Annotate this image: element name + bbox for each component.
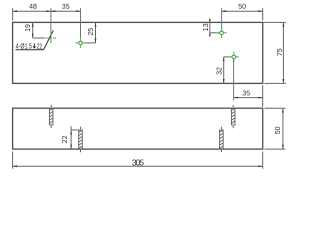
slot C (hole H4 drilled from top) [231, 105, 235, 128]
dimension 25 vertical [95, 22, 97, 43]
hole H2 center cross [75, 38, 85, 48]
hole note underline [16, 49, 44, 51]
pointer line from 19 to hole H1 [33, 37, 46, 39]
dimension line 75 [282, 22, 284, 83]
extension line at hole H3 (dim 50) [221, 8, 223, 30]
svg-text:35: 35 [62, 4, 70, 11]
extension line right (dim 50) [262, 8, 264, 20]
extension lines for dim 305 [12, 152, 14, 169]
extension line at hole H2 (dim 35) [80, 8, 82, 41]
dimension line 48 [13, 10, 51, 12]
svg-text:35: 35 [242, 90, 250, 97]
svg-text:50: 50 [275, 126, 282, 134]
dimension 19 vertical [32, 22, 34, 38]
svg-text:19: 19 [25, 24, 32, 32]
extension line at hole H1 (dims 48/35) [50, 8, 52, 43]
svg-text:22: 22 [37, 43, 43, 51]
top view plate outline [13, 22, 263, 83]
slot B (hole H2 drilled from bottom) [79, 127, 83, 152]
extension line right edge for dim 35 [262, 85, 264, 107]
pointer line from 22 to slot B [71, 129, 78, 131]
svg-text:25: 25 [88, 28, 95, 36]
dimension 32 vertical [223, 57, 225, 84]
hole H4 center cross [229, 52, 239, 62]
dimension 13 vertical (outside arrows) [209, 18, 211, 36]
dimension line 35 between views [234, 97, 263, 99]
pointer line from hole H2 to 25 [82, 42, 96, 44]
hole H1 center cross [46, 33, 56, 43]
extension line from hole H4 down to dim 35 [233, 59, 235, 101]
svg-text:32: 32 [217, 67, 224, 75]
dimension line 50 lower view [282, 108, 284, 149]
slot D (hole H3 drilled from bottom) [220, 127, 224, 152]
svg-text:22: 22 [62, 135, 69, 143]
dimension line 35 top [51, 10, 81, 12]
dimension line 50 top right [222, 10, 263, 12]
pointer line from 13 to hole H3 [210, 32, 220, 34]
extension line bottom for dim 75 [265, 82, 286, 84]
svg-text:13: 13 [203, 23, 210, 31]
hole H3 center cross [216, 28, 226, 38]
pointer line from 32 to hole H4 [224, 56, 233, 58]
svg-text:305: 305 [132, 157, 145, 167]
svg-text:50: 50 [238, 4, 246, 11]
lower view plate outline [13, 108, 263, 149]
extension line left (dim 48) [12, 8, 14, 20]
slot A (hole H1 drilled from top) [49, 105, 53, 128]
svg-text:48: 48 [29, 4, 37, 11]
svg-text:4-Ø1.5: 4-Ø1.5 [16, 43, 33, 51]
extension line top for dim 75 [263, 21, 286, 23]
dimension 22 vertical lower view [70, 126, 72, 149]
extension lines for dim 50 lower view [265, 107, 286, 109]
leader line for hole note [44, 31, 54, 50]
depth symbol [33, 43, 35, 48]
dimension line 305 [13, 165, 263, 167]
svg-text:75: 75 [277, 48, 284, 56]
